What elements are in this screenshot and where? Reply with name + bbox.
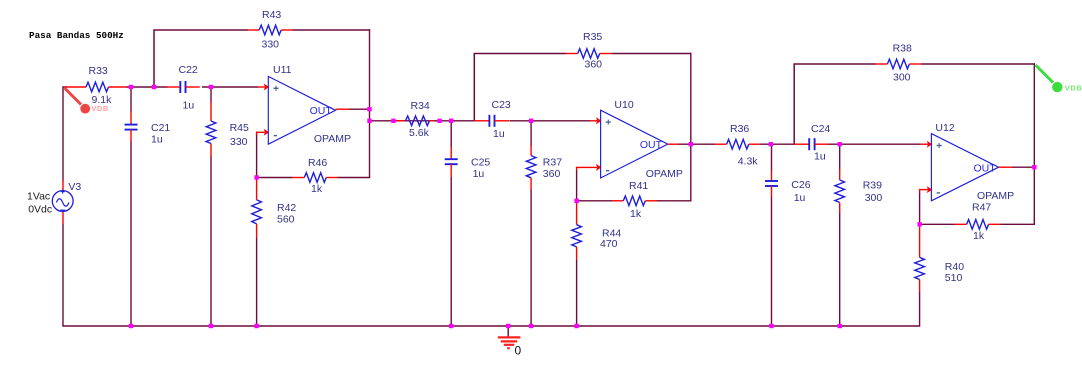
svg-text:1Vac: 1Vac [27,190,50,202]
svg-text:300: 300 [893,72,911,84]
wire C25 stub lower to rail [450,177,452,327]
label 1Vac [27,190,50,202]
junction stage2 wire [391,119,395,123]
wire left rail top (input node to V3) [62,86,64,180]
junction C25 top [449,119,453,123]
junction rail C26 [769,324,773,328]
label R36 [730,123,749,135]
label C24 [811,123,830,135]
pin U12 plus input [920,141,932,148]
svg-text:Pasa Bandas 500Hz: Pasa Bandas 500Hz [29,30,124,41]
op-amp U10 [601,110,668,178]
resistor R38 [875,59,922,69]
label R38 [893,43,912,55]
label U12 OUT [974,163,997,175]
label R37 [543,156,562,168]
label 0Vdc [28,204,52,216]
pin U11 minus input [257,129,270,136]
svg-text:330: 330 [230,136,248,148]
label R46 [308,157,327,169]
svg-text:U11: U11 [273,64,292,76]
label ground 0 [515,344,522,358]
svg-text:U12: U12 [935,122,954,134]
label R35 value 360 [585,58,603,70]
wire R33 to C22 (node with C21, R43 tap) [126,86,168,88]
svg-text:C25: C25 [471,156,490,168]
resistor R41 [612,196,657,206]
svg-text:OUT: OUT [974,163,997,175]
label R39 [863,180,882,192]
ground [498,337,521,348]
svg-text:R46: R46 [308,157,327,169]
label R42 value 560 [277,214,295,226]
svg-text:470: 470 [600,238,618,250]
resistor R47 [955,220,1001,230]
label V3 [68,181,81,193]
svg-text:R39: R39 [863,180,882,192]
svg-text:R42: R42 [277,202,296,214]
title Pasa Bandas 500Hz [29,30,124,41]
resistor R45 [206,101,216,157]
resistor R35 [566,49,612,59]
wire R44 stub lower to rail [576,260,578,327]
label R45 [230,122,249,134]
label C21 value 1u [151,133,163,145]
wire R35 feedback tap up and across [474,54,566,122]
wire stage2 input from output vertical [370,120,475,122]
wire R47 to output vertical [1000,223,1035,225]
svg-text:OUT: OUT [640,139,663,151]
resistor R36 [714,139,760,149]
svg-text:0: 0 [515,344,522,358]
resistor R43 [248,25,294,35]
pin U11 output [336,108,350,110]
label C25 value 1u [473,168,485,180]
label R44 [602,228,621,240]
label R41 value 1k [630,208,642,220]
wire C23 to U10 plus input [510,120,591,122]
junction U12 inverting [917,222,921,226]
wire R38 to stage3 output vertical [921,63,1035,65]
label R38 value 300 [893,72,911,84]
wire R38 feedback tap up and across [794,64,875,145]
pin U10 minus input [577,164,602,171]
junction U10 output [689,142,693,146]
wire R45 stub upper [210,87,212,102]
pin U11 plus input [258,84,270,91]
voltage probe VDB (output) [1036,65,1063,92]
svg-text:R47: R47 [972,202,991,214]
label R43 value 330 [262,39,280,51]
voltage source V3 [52,180,73,224]
svg-text:360: 360 [543,168,561,180]
wire R46 to output vertical [338,177,371,179]
junction C23/R37 [529,119,533,123]
wire U12 output to vertical [1012,166,1034,168]
wire R43 to output vertical [293,29,371,31]
junction U10 inverting [574,199,578,203]
resistor R44 [572,203,582,260]
svg-text:OPAMP: OPAMP [977,190,1014,202]
svg-text:U10: U10 [614,99,633,111]
svg-text:C26: C26 [791,179,810,191]
wire U10 output to vertical [678,143,691,145]
svg-text:5.6k: 5.6k [409,127,430,139]
junction stage2 input [367,119,371,123]
label R37 value 360 [543,168,561,180]
resistor R34 [394,116,434,126]
wire C24 to U12 plus input [828,143,920,145]
resistor R37 [526,146,536,191]
pin U12 output [999,166,1013,168]
wire bottom ground rail [62,325,919,327]
svg-text:OPAMP: OPAMP [314,133,351,145]
svg-text:1u: 1u [814,151,826,163]
capacitor C23 [474,115,509,127]
label R44 value 470 [600,238,618,250]
svg-text:510: 510 [945,272,963,284]
svg-text:1u: 1u [473,168,485,180]
svg-text:1k: 1k [311,183,323,195]
wire inverting node to R41 [577,200,613,202]
resistor R39 [835,169,845,213]
junction R36/C26 [769,142,773,146]
label U12 [935,122,954,134]
wire R39 stub lower to rail [839,213,841,327]
label U10 OPAMP [646,168,683,180]
label U11 OUT [310,105,333,117]
junction U11 output [367,107,371,111]
label R34 [411,100,430,112]
svg-text:300: 300 [865,192,883,204]
label U11 [273,64,292,76]
junction rail R39 [838,324,842,328]
wire stage3 input from output vertical [691,143,715,145]
wire input to R33 [63,86,67,88]
wire R45 stub lower to rail [210,157,212,327]
op-amp U12 [931,134,998,201]
label C21 [151,122,170,134]
label C26 [791,179,810,191]
wire U10 output vertical (R35/R41 node) [690,53,692,201]
svg-text:1k: 1k [973,230,985,242]
label R39 value 300 [865,192,883,204]
svg-text:V3: V3 [68,181,81,193]
junction rail R37 [529,324,533,328]
svg-text:360: 360 [585,58,603,70]
resistor R46 [292,173,338,183]
wire R42 stub lower to rail [256,238,258,327]
wire U11 output vertical (R43/R46 node) [369,29,371,177]
wire U10 inverting node vertical [576,170,578,201]
wire C25 stub upper [450,121,452,148]
label R42 [277,202,296,214]
svg-text:1u: 1u [794,192,806,204]
svg-text:VDB: VDB [91,104,108,113]
label U11 OPAMP [314,133,351,145]
wire R37 stub upper [530,121,532,146]
wire U12 output vertical (R38/R47 node) [1033,63,1035,224]
svg-text:0Vdc: 0Vdc [28,204,52,216]
svg-text:1u: 1u [493,128,505,140]
svg-text:R41: R41 [629,180,648,192]
label VDB red [91,104,108,113]
svg-text:C24: C24 [811,123,830,135]
capacitor C21 [125,111,138,142]
svg-text:R45: R45 [230,122,249,134]
junction R33/C21 [129,85,133,89]
label R33 [89,65,108,77]
capacitor C22 [167,81,200,93]
label R36 value 4.3k [738,156,759,168]
wire U11 output to vertical [348,108,370,110]
wire U12 inverting node vertical [919,193,921,225]
label U10 [614,99,633,111]
label R45 value 330 [230,136,248,148]
junction C24/R39 [838,142,842,146]
label R47 value 1k [973,230,985,242]
wire left rail bottom (V3 to ground rail) [62,224,64,326]
label C26 value 1u [794,192,806,204]
wire U11 inverting node vertical [256,133,258,178]
svg-text:C23: C23 [492,99,511,111]
wire R39 stub upper [839,144,841,169]
svg-text:R35: R35 [583,31,602,43]
junction rail R42 [254,324,258,328]
label R47 [972,202,991,214]
resistor R33 [65,82,127,92]
label C23 [492,99,511,111]
svg-text:R33: R33 [89,65,108,77]
junction rail ground [506,324,510,328]
svg-text:C21: C21 [151,122,170,134]
pin U10 plus input [590,117,602,124]
svg-text:1u: 1u [183,100,195,112]
junction rail R45 [209,324,213,328]
label U10 OUT [640,139,663,151]
wire R41 to output vertical [657,200,692,202]
wire C22 to U11 plus input [202,86,258,88]
svg-text:R36: R36 [730,123,749,135]
junction rail R44 [574,324,578,328]
op-amp U11 [268,76,335,144]
label R41 [629,180,648,192]
label 9.1k [92,94,113,106]
junction U12 output [1032,165,1036,169]
wire R35 to stage2 output vertical [612,53,692,55]
svg-text:OUT: OUT [310,105,333,117]
capacitor C24 [794,138,829,150]
label C25 [471,156,490,168]
label C22 value 1u [183,100,195,112]
label R43 [262,9,281,21]
label R34 value 5.6k [409,127,430,139]
pin U12 minus input [920,186,933,193]
label C24 value 1u [814,151,826,163]
svg-text:C22: C22 [179,64,198,76]
wire C26 stub lower to rail [771,197,773,327]
wire inverting node to R47 [920,223,955,225]
label C22 [179,64,198,76]
svg-text:VDB: VDB [1065,84,1082,93]
label C23 value 1u [493,128,505,140]
wire C21 stub lower to rail [130,142,132,327]
voltage probe VDB (input) [65,88,91,114]
junction rail C25 [449,324,453,328]
svg-text:4.3k: 4.3k [738,156,759,168]
resistor R40 [915,226,925,293]
svg-text:330: 330 [262,39,280,51]
wire R40 stub lower to rail [919,292,921,327]
wire C21 stub upper [130,87,132,112]
wire ground stub [507,326,509,337]
svg-text:R38: R38 [893,43,912,55]
capacitor C25 [445,147,458,177]
capacitor C26 [765,171,778,198]
junction rail C21 [129,324,133,328]
svg-text:1k: 1k [630,208,642,220]
pin U10 output [668,143,679,145]
junction U11 inverting [254,175,258,179]
svg-text:R43: R43 [262,9,281,21]
svg-text:R37: R37 [543,156,562,168]
junction C22/R45 [209,85,213,89]
svg-text:OPAMP: OPAMP [646,168,683,180]
resistor R42 [252,180,262,239]
label VDB green [1065,84,1082,93]
label R46 value 1k [311,183,323,195]
wire inverting node to R46 [257,177,293,179]
label R35 [583,31,602,43]
wire R37 stub lower to rail [530,190,532,327]
label U12 OPAMP [977,190,1014,202]
label R40 [945,261,964,273]
label R40 value 510 [945,272,963,284]
wire C26 stub upper [771,144,773,171]
svg-text:R34: R34 [411,100,430,112]
wire R36 to C24 node [760,143,795,145]
wire R43 feedback tap up and across [154,30,248,87]
svg-text:560: 560 [277,214,295,226]
junction R43 tap [152,85,156,89]
svg-text:1u: 1u [151,133,163,145]
junction R34 out [437,119,441,123]
